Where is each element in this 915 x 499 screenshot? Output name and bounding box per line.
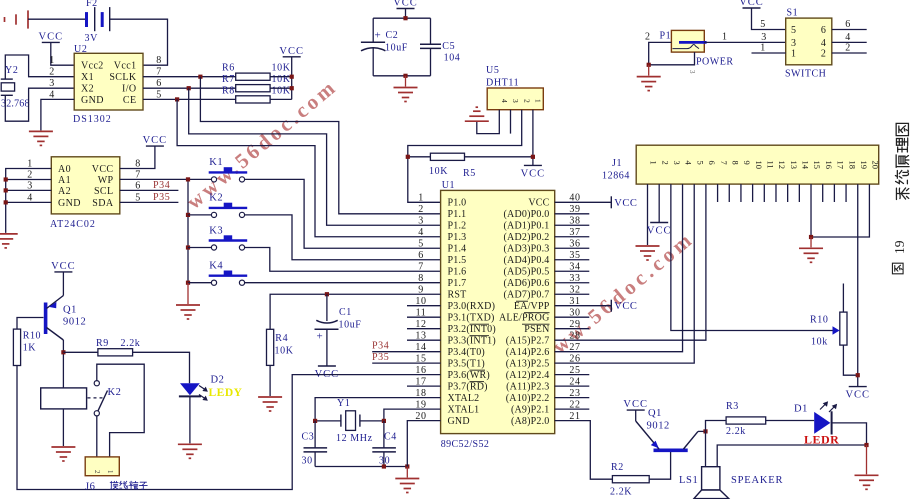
wire DHT11 data to U1 pin1 [408, 110, 522, 203]
wire R10 top stub [842, 284, 844, 313]
svg-text:R10: R10 [810, 315, 828, 326]
wire battery positive to U2 pin8 [110, 19, 168, 65]
relay K2 contact [88, 381, 122, 416]
wire U1 pin39 stub [555, 213, 590, 215]
R10 wiper arrow [833, 326, 840, 334]
svg-text:VCC: VCC [393, 0, 418, 9]
capacitor C1 10uF (electrolytic) [315, 320, 339, 329]
wire J1.15 down [810, 184, 812, 237]
svg-text:19: 19 [892, 240, 907, 254]
svg-text:P1.5: P1.5 [448, 255, 467, 266]
junction [186, 213, 190, 217]
svg-text:P1.0: P1.0 [448, 198, 467, 209]
wire SDA stub [120, 201, 179, 203]
svg-text:8: 8 [156, 55, 162, 66]
junction RST/C1 [325, 292, 329, 296]
wire to R3 [706, 421, 727, 432]
svg-text:P1.7: P1.7 [448, 278, 467, 289]
wire to ground [648, 65, 650, 76]
wire J1.1 to ground [647, 184, 649, 245]
VCC power symbol (J1 pin2) [647, 223, 672, 237]
svg-text:Y2: Y2 [5, 65, 18, 76]
IC U1 89C52/S52 MCU [415, 180, 580, 450]
svg-text:(AD2)P0.2: (AD2)P0.2 [504, 232, 550, 243]
wire J1.8 stub [728, 184, 730, 202]
wire R4 to ground [269, 365, 271, 396]
resistor R5 10K [430, 153, 464, 160]
connector J1 12864 LCD [602, 145, 881, 184]
wire I/O bus to U1 pin3 [189, 88, 441, 225]
svg-text:(AD3)P0.3: (AD3)P0.3 [504, 244, 550, 255]
junction R5/data [406, 155, 410, 159]
svg-text:10K: 10K [272, 86, 291, 97]
svg-text:2.2k: 2.2k [726, 426, 746, 437]
ground (buttons) [176, 305, 200, 319]
wire C1 bottom to VCC [326, 329, 328, 366]
VCC power symbol (C1) [315, 366, 340, 380]
svg-text:Q1: Q1 [63, 305, 77, 316]
wire U1 pin37 stub [555, 236, 590, 238]
wire to C4 [383, 421, 385, 448]
wire U1 pin10 stub [407, 305, 441, 307]
wire bus to K2 [188, 214, 211, 216]
svg-text:C5: C5 [442, 41, 455, 52]
wire J1.11 stub [763, 184, 765, 202]
wire R7 to VCC rail [270, 87, 292, 89]
svg-text:(A11)P2.3: (A11)P2.3 [506, 382, 549, 393]
svg-text:13: 13 [789, 161, 799, 170]
wire U1 pin31 to VCC [555, 305, 612, 307]
wire U1 pin30 stub [555, 316, 590, 318]
wire RST to R4 [270, 294, 441, 329]
wire J1.7 stub [717, 184, 719, 202]
svg-text:K3: K3 [209, 226, 223, 237]
svg-text:U5: U5 [486, 65, 499, 76]
svg-text:R4: R4 [275, 333, 288, 344]
svg-text:GND: GND [448, 416, 470, 427]
svg-text:20: 20 [871, 161, 881, 170]
junction collector/R9 [61, 350, 65, 354]
svg-text:DHT11: DHT11 [486, 78, 519, 89]
svg-text:1: 1 [534, 99, 543, 103]
wire AT24C02 WP to K1 [120, 178, 212, 180]
wire SCL stub [120, 189, 179, 191]
svg-text:VCC: VCC [739, 0, 764, 8]
svg-text:P1.2: P1.2 [448, 221, 467, 232]
capacitor C3 30pF [304, 448, 328, 452]
svg-text:7: 7 [719, 161, 729, 165]
svg-text:3: 3 [688, 70, 696, 74]
junction [186, 245, 190, 249]
svg-text:9012: 9012 [63, 317, 86, 328]
junction speaker/D1/ground [864, 443, 868, 447]
relay K2 coil [41, 388, 87, 409]
wire J1.9 stub [740, 184, 742, 202]
wire U1 pin32 stub [555, 293, 590, 295]
wire collector [698, 430, 706, 432]
svg-text:8: 8 [730, 161, 740, 165]
svg-text:SCL: SCL [94, 186, 114, 197]
svg-text:SCLK: SCLK [109, 72, 137, 83]
svg-text:6: 6 [707, 161, 717, 165]
IC U2 DS1302 [49, 44, 162, 125]
svg-text:I/O: I/O [122, 84, 137, 95]
title 图 19 (vertical) [892, 240, 907, 274]
svg-text:K2: K2 [209, 193, 223, 204]
svg-text:17: 17 [836, 161, 846, 170]
wire U1 pin12 stub [407, 328, 441, 330]
svg-text:(A9)P2.1: (A9)P2.1 [511, 405, 550, 416]
wire K3 to U1 pin7 [245, 248, 441, 272]
ground (relay coil) [51, 447, 75, 461]
wire J1.17 stub [833, 184, 835, 202]
junction P1 ground [647, 63, 651, 67]
svg-text:10uF: 10uF [339, 320, 362, 331]
svg-text:1: 1 [722, 32, 728, 43]
wire to ground [866, 445, 868, 474]
wire U1 pin23 stub [555, 397, 590, 399]
svg-text:DS1302: DS1302 [73, 114, 112, 125]
resistor R3 2.2k [726, 417, 766, 424]
svg-text:VCC: VCC [143, 135, 168, 146]
wire C1 top [326, 294, 328, 321]
svg-text:VCC: VCC [614, 301, 637, 312]
junction I/O [187, 86, 191, 90]
junction Y1/C4 [382, 419, 386, 423]
svg-text:K2: K2 [108, 387, 122, 398]
svg-text:ALE/PROG: ALE/PROG [499, 313, 550, 324]
svg-text:9012: 9012 [647, 421, 670, 432]
wire D1 cathode down [832, 423, 867, 445]
VCC power symbol (Q1 relay) [51, 261, 76, 272]
wire U1 GND down [407, 421, 440, 467]
svg-text:R9: R9 [96, 338, 109, 349]
wire P1 bottom return [649, 52, 695, 65]
wire VCC to S1 pin5 [752, 8, 786, 30]
wire K4 to U1 pin8 [245, 282, 441, 284]
wire J1.14 stub [798, 184, 800, 202]
junction [382, 464, 386, 468]
svg-text:19: 19 [859, 161, 869, 170]
junction top rail [403, 16, 407, 20]
wire S1.1 stub [752, 52, 786, 54]
svg-text:C4: C4 [384, 432, 397, 443]
wire crystal ground rail [315, 466, 407, 468]
junction J1 ground [809, 235, 813, 239]
svg-text:J1: J1 [612, 158, 622, 169]
resistor R2 2.2K [612, 476, 649, 483]
svg-text:10: 10 [754, 161, 764, 170]
svg-text:R7: R7 [222, 74, 235, 85]
svg-text:15: 15 [812, 161, 822, 170]
wire U1 pin22 stub [555, 408, 590, 410]
resistor R4 10K [267, 329, 274, 365]
svg-text:1: 1 [791, 48, 797, 59]
svg-text:VCC: VCC [528, 198, 549, 209]
svg-text:J6: J6 [85, 482, 96, 493]
svg-text:3V: 3V [85, 33, 99, 44]
svg-text:2: 2 [49, 67, 55, 78]
svg-text:+: + [375, 30, 382, 42]
svg-text:(AD7)P0.7: (AD7)P0.7 [504, 290, 550, 301]
wire A1 [6, 179, 52, 181]
svg-text:(A10)P2.2: (A10)P2.2 [506, 393, 550, 404]
svg-text:2: 2 [645, 32, 651, 43]
wire speaker to ground node [717, 445, 866, 467]
svg-text:VCC: VCC [647, 226, 672, 237]
wire to C5 [430, 18, 432, 44]
svg-text:6: 6 [418, 250, 424, 261]
wire Y1 right [360, 420, 384, 422]
wire to speaker [705, 431, 707, 466]
svg-text:(AD0)P0.0: (AD0)P0.0 [504, 209, 550, 220]
wire J1.3 to R10 wiper [671, 184, 833, 330]
svg-text:P34: P34 [153, 180, 170, 191]
junction SCLK [198, 75, 202, 79]
junction collector/R3/speaker [703, 429, 707, 433]
svg-text:R10: R10 [23, 331, 41, 342]
svg-text:Vcc1: Vcc1 [114, 61, 137, 72]
wire Y1 left [315, 420, 341, 422]
svg-text:EA/VPP: EA/VPP [514, 301, 550, 312]
svg-text:VCC: VCC [623, 399, 648, 410]
junction J1.19/R10 [856, 373, 860, 377]
svg-text:Y1: Y1 [337, 398, 350, 409]
junction [4, 177, 8, 181]
svg-text:2: 2 [821, 48, 827, 59]
svg-text:2: 2 [845, 43, 851, 54]
ground (D2) [178, 444, 202, 458]
wire K2 contact to J6 pin1 [96, 416, 98, 457]
wire XTAL2 to Y1 [315, 398, 441, 421]
svg-text:12: 12 [777, 161, 787, 170]
svg-text:11: 11 [766, 161, 776, 169]
label 接线端子 (terminal) [110, 481, 147, 489]
VCC power symbol (J1 pin19) [845, 387, 870, 401]
svg-text:(A12)P2.4: (A12)P2.4 [506, 370, 550, 381]
wire R2 to Q1 base [649, 452, 670, 479]
wire R5 left [408, 156, 431, 158]
svg-text:8: 8 [418, 273, 424, 284]
svg-text:P1: P1 [660, 31, 672, 42]
svg-text:P3.4(T0): P3.4(T0) [448, 347, 485, 358]
svg-text:9: 9 [742, 161, 752, 165]
junction CE [175, 97, 179, 101]
svg-text:K1: K1 [209, 157, 223, 168]
svg-text:U1: U1 [442, 180, 455, 191]
VCC power symbol (C2/C5) [393, 0, 418, 9]
wire U1 pin24 stub [555, 385, 590, 387]
svg-text:U2: U2 [74, 44, 87, 55]
wire VCC pin8 [120, 146, 155, 168]
svg-text:SWITCH: SWITCH [785, 69, 826, 80]
svg-text:C2: C2 [386, 30, 399, 41]
svg-text:10uF: 10uF [385, 43, 408, 54]
svg-text:10K: 10K [429, 166, 448, 177]
wire C2/C5 top rail [373, 17, 430, 19]
wire J1.5 to U1 pin26 [555, 184, 695, 363]
svg-text:R3: R3 [726, 401, 739, 412]
svg-text:4: 4 [821, 38, 827, 49]
svg-text:+: + [317, 331, 324, 343]
wire C5 bottom [430, 48, 432, 75]
wire P34 stub [372, 351, 440, 353]
wire A2 [6, 189, 52, 191]
wire C2/C5 bottom rail [373, 75, 430, 77]
pushbutton K1 [209, 157, 248, 182]
svg-text:10K: 10K [272, 74, 291, 85]
VCC power symbol (Q1 speaker) [623, 399, 648, 410]
svg-text:VCC: VCC [279, 46, 304, 57]
wire VCC to U2 pin1 [51, 42, 74, 65]
wire button common bus [187, 179, 189, 282]
wire DHT11 pin1 to VCC [532, 110, 534, 166]
wire U1 pin21 to R2 [555, 421, 613, 480]
svg-text:P35: P35 [372, 352, 389, 363]
svg-text:1: 1 [418, 193, 424, 204]
wire VCC stem [635, 410, 637, 421]
resistor R8 10K [236, 96, 270, 103]
IC U5 DHT11 sensor [486, 65, 543, 110]
svg-text:P1.3: P1.3 [448, 232, 467, 243]
wire R3 to D1 [766, 420, 815, 422]
svg-text:10K: 10K [272, 63, 291, 74]
wire K2 to U1 pin6 [245, 215, 441, 260]
capacitor C5 104 [420, 44, 441, 48]
wire VCC stem [405, 9, 407, 19]
pushbutton K4 [209, 261, 248, 286]
junction bottom rail [403, 74, 407, 78]
wire U2 X2 to Y2 bottom [5, 88, 74, 121]
wire U1 pin40 to VCC [555, 201, 612, 203]
svg-text:(A14)P2.6: (A14)P2.6 [506, 347, 550, 358]
wire bus to K4 [188, 282, 211, 284]
junction [186, 281, 190, 285]
wire U2 I/O to R7 [143, 87, 236, 89]
LED D2 (LEDY) [179, 375, 243, 401]
svg-text:A0: A0 [58, 164, 71, 175]
wire U2 SCLK to R6 [143, 76, 236, 78]
svg-text:P35: P35 [153, 192, 170, 203]
svg-text:AT24C02: AT24C02 [50, 219, 96, 230]
svg-text:R5: R5 [463, 168, 476, 179]
resistor R10 1K [13, 329, 20, 365]
svg-text:(AD5)P0.5: (AD5)P0.5 [504, 267, 550, 278]
wire VCC rail down [291, 57, 293, 100]
wire U1 pin11 stub [407, 316, 441, 318]
wire C4 bottom [383, 452, 385, 467]
svg-text:(AD1)P0.1: (AD1)P0.1 [504, 221, 550, 232]
svg-text:D1: D1 [794, 404, 808, 415]
switch S1 [786, 8, 832, 65]
svg-text:89C52/S52: 89C52/S52 [441, 439, 490, 450]
wire XTAL1 to Y1 [384, 409, 441, 421]
wire P35 stub [372, 362, 440, 364]
svg-text:P3.1(TXD): P3.1(TXD) [448, 313, 495, 324]
svg-text:VCC: VCC [51, 261, 76, 272]
battery F2 3V [87, 7, 110, 31]
svg-text:1: 1 [649, 161, 659, 165]
svg-text:18: 18 [847, 161, 857, 170]
VCC power symbol (DHT11) [521, 165, 546, 179]
svg-text:10K: 10K [275, 346, 294, 357]
svg-text:10k: 10k [811, 337, 828, 348]
capacitor C2 10uF (electrolytic) [361, 42, 386, 51]
svg-text:2: 2 [93, 470, 101, 474]
svg-text:VCC: VCC [39, 31, 64, 42]
svg-text:SPEAKER: SPEAKER [731, 475, 783, 486]
svg-text:1: 1 [760, 43, 766, 54]
wire R10 bottom to VCC [843, 345, 856, 375]
svg-text:F2: F2 [86, 0, 98, 9]
svg-text:5: 5 [760, 19, 766, 30]
svg-text:P3.2(INT0): P3.2(INT0) [448, 324, 496, 335]
pushbutton K2 [209, 193, 248, 218]
wire DHT11 pin3 stub [510, 110, 512, 134]
svg-text:C3: C3 [302, 432, 315, 443]
wire R6 to VCC rail [270, 76, 292, 78]
svg-text:LEDR: LEDR [804, 433, 839, 447]
IC AT24C02 EEPROM [27, 157, 141, 230]
svg-text:GND: GND [58, 198, 81, 209]
svg-text:P34: P34 [372, 341, 389, 352]
svg-text:C1: C1 [339, 307, 352, 318]
junction [4, 200, 8, 204]
ground (R4) [258, 397, 282, 411]
junction R5/VCC [531, 155, 535, 159]
svg-text:P1.1: P1.1 [448, 209, 467, 220]
svg-text:VCC: VCC [614, 198, 637, 209]
wire J1.12 stub [775, 184, 777, 202]
ground (J1 pin1) [636, 246, 660, 260]
wire bus to ground [187, 283, 189, 304]
transistor Q1 9012 (relay driver, PNP) [46, 296, 87, 341]
wire U1 pin33 stub [555, 282, 590, 284]
svg-text:LEDY: LEDY [209, 387, 243, 399]
svg-text:2.2K: 2.2K [610, 487, 632, 498]
wire C3 bottom [314, 452, 316, 467]
svg-text:S1: S1 [787, 8, 799, 19]
svg-text:K4: K4 [209, 261, 223, 272]
svg-text:WP: WP [98, 175, 114, 186]
LED D1 (LEDR) [794, 402, 839, 446]
svg-text:104: 104 [444, 53, 461, 64]
svg-text:4: 4 [500, 99, 509, 103]
wire DHT11 pin4 to ground [477, 110, 500, 134]
wire to C3 [314, 421, 316, 448]
svg-text:R6: R6 [222, 63, 235, 74]
wire bus to K3 [188, 247, 211, 249]
svg-text:5: 5 [791, 25, 797, 36]
svg-text:3: 3 [672, 161, 682, 165]
wire J1.13 stub [787, 184, 789, 202]
svg-text:R2: R2 [611, 462, 624, 473]
capacitor C4 30pF [372, 448, 396, 452]
svg-text:4: 4 [418, 227, 424, 238]
svg-text:RST: RST [448, 290, 467, 301]
svg-text:P3.6(WR): P3.6(WR) [448, 370, 490, 381]
svg-text:VCC: VCC [92, 164, 114, 175]
svg-text:R8: R8 [222, 86, 235, 97]
wire P1.2 down [649, 42, 672, 64]
ground (speaker/D1) [855, 475, 879, 489]
svg-text:6: 6 [845, 19, 851, 30]
wire J1.20 to J1.15 [811, 184, 869, 237]
VCC power symbol (U1 pin40) [611, 196, 637, 209]
ground (AT24C02) [0, 234, 18, 248]
svg-text:(AD6)P0.6: (AD6)P0.6 [504, 278, 550, 289]
svg-text:PSEN: PSEN [524, 324, 549, 335]
